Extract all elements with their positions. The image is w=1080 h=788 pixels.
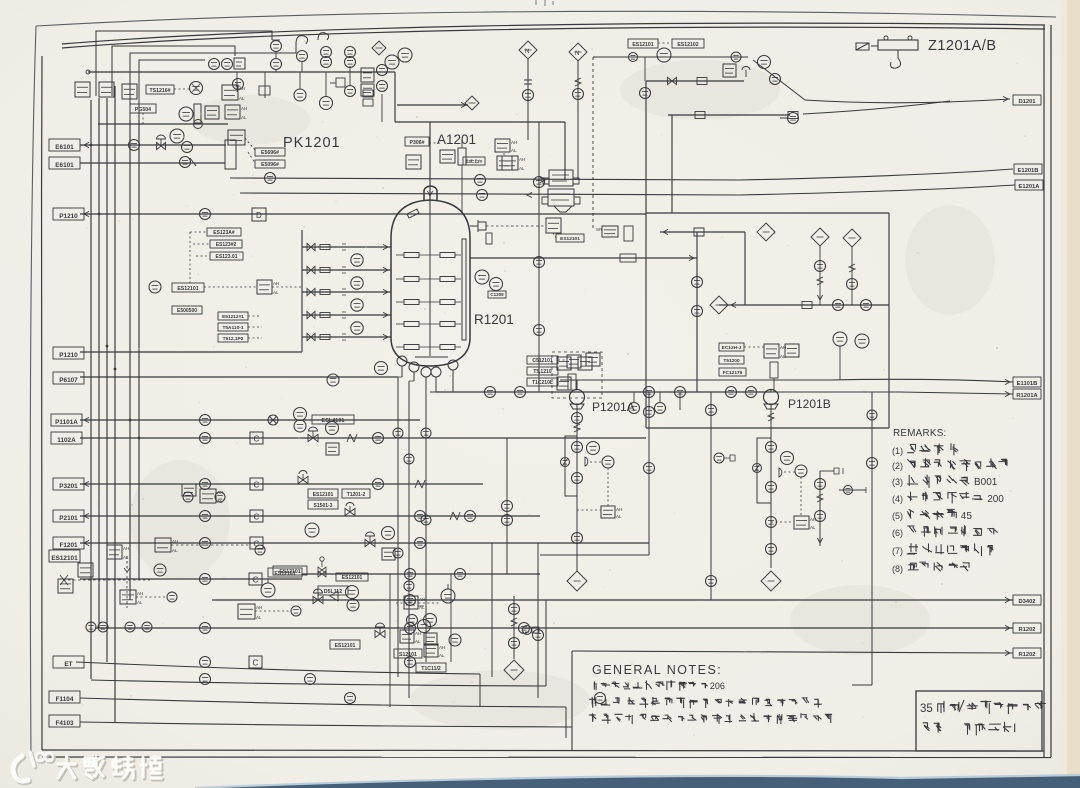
check valve A <box>561 458 570 467</box>
remark line 6 <box>892 525 998 538</box>
Z box <box>326 443 339 455</box>
PG circle low <box>294 89 306 101</box>
reactor coil row 3 <box>396 300 461 305</box>
wire x820 top link <box>820 470 834 472</box>
second TK box <box>361 84 374 96</box>
wire y555 <box>540 554 649 556</box>
svg-text:F4103: F4103 <box>55 720 74 727</box>
wire hoist link <box>871 45 878 47</box>
labels below manifold <box>218 312 248 320</box>
FV circle <box>424 614 437 627</box>
svg-text:AH: AH <box>273 281 279 286</box>
FG circle 2 <box>855 334 869 348</box>
instrument TG circle 4 <box>351 322 363 334</box>
svg-text:PG504: PG504 <box>135 107 151 113</box>
E drain symbol <box>330 82 336 84</box>
FG box A <box>601 506 622 519</box>
label C512101 <box>527 356 558 364</box>
wire vertical x697 <box>696 232 698 392</box>
valve pair x350 <box>345 47 356 58</box>
svg-text:AH: AH <box>123 546 129 551</box>
page top cut-off marks <box>536 0 553 6</box>
reactor coil row 4 <box>396 322 461 327</box>
wire vertical x711 <box>710 392 712 600</box>
wire vertical x451b <box>450 574 452 662</box>
svg-text:ES12101: ES12101 <box>335 643 356 649</box>
svg-text:ES12101: ES12101 <box>342 575 363 581</box>
wire header drop at 395 <box>394 72 396 122</box>
FAC box <box>238 604 262 620</box>
H circle <box>149 281 161 293</box>
wire feed line 2 <box>302 269 391 271</box>
wire drop nozzle2 <box>413 372 415 381</box>
svg-text:A1201: A1201 <box>437 132 476 147</box>
FV circle b2 <box>418 620 431 633</box>
wire x382 to header <box>381 94 383 122</box>
valve on B line 2 <box>475 175 486 186</box>
svg-text:C: C <box>254 513 260 522</box>
wire P1210 line <box>80 213 646 215</box>
label ES12101 top <box>628 39 658 48</box>
wire vertical x546 <box>545 600 547 686</box>
box D on P1210 line <box>252 208 266 221</box>
wire D1201 main <box>805 99 1010 103</box>
svg-text:45: 45 <box>961 511 973 522</box>
label LC <box>418 605 424 607</box>
dash <box>136 596 165 598</box>
notes box left edge <box>571 651 573 750</box>
FV circle bottom <box>346 586 359 599</box>
svg-text:(2): (2) <box>892 461 903 471</box>
dash down <box>607 468 609 506</box>
node P1210 inlet label <box>53 347 84 359</box>
svg-text:T512,1P2: T512,1P2 <box>223 336 244 342</box>
valve on 574 <box>405 569 416 580</box>
svg-text:C: C <box>253 576 259 585</box>
wire vertical x492 <box>491 543 493 677</box>
valve on A line <box>477 190 488 201</box>
node F1201 inlet label <box>53 537 84 549</box>
svg-text:AL: AL <box>273 290 279 295</box>
dashes A1201 <box>429 142 440 144</box>
wire N2 drop <box>577 61 579 140</box>
wire y232 inner <box>660 231 745 233</box>
wire E1201B long line <box>230 169 1013 180</box>
svg-text:E5696#: E5696# <box>261 150 279 156</box>
valve circle <box>182 142 193 153</box>
label ES12102 top <box>672 39 704 48</box>
vent stack 1 <box>271 41 282 52</box>
valve row bl 1 <box>86 622 96 632</box>
diamond TB <box>811 228 829 246</box>
label box top <box>405 137 429 146</box>
V circle <box>758 56 771 69</box>
svg-text:P6107: P6107 <box>59 377 78 384</box>
scan blotches <box>130 60 995 730</box>
check valve B <box>753 464 762 473</box>
wire N drop <box>527 59 529 122</box>
drawing border top double line <box>62 23 1045 44</box>
wire vertical x390 <box>389 574 391 707</box>
FA pair 1 <box>764 344 786 359</box>
node R1202 outlet label <box>1013 648 1041 658</box>
label E5696 1 <box>255 148 285 156</box>
svg-text:AH: AH <box>511 140 517 145</box>
SS circle bottom left <box>375 362 388 375</box>
wire y81 <box>646 80 744 82</box>
right page edge strip <box>1066 0 1080 788</box>
valve A1 <box>572 413 583 424</box>
svg-text:AL: AL <box>172 548 178 553</box>
wire side loop A <box>565 436 577 496</box>
check valve <box>180 157 191 168</box>
svg-text:C: C <box>254 481 260 490</box>
svg-text:P1201B: P1201B <box>788 397 831 411</box>
pipe break <box>450 512 460 520</box>
svg-text:ES12101: ES12101 <box>313 492 334 498</box>
square on header <box>234 58 245 69</box>
svg-text:E51212#1: E51212#1 <box>222 314 244 320</box>
svg-text:AL: AL <box>123 555 129 560</box>
instrument TG circle 2 <box>351 277 363 289</box>
dash rect EA group <box>552 352 602 398</box>
wire big rect bottom <box>646 427 889 429</box>
svg-text:T1C210L: T1C210L <box>532 380 553 386</box>
wire feed line 1 <box>302 246 391 248</box>
dash col <box>248 315 260 317</box>
svg-text:AL: AL <box>810 525 816 530</box>
wire KO drop <box>851 247 853 305</box>
svg-text:REMARKS:: REMARKS: <box>893 428 947 439</box>
D shape B <box>779 468 782 477</box>
svg-text:AL: AL <box>519 166 525 171</box>
label ES12101 mid <box>172 283 204 292</box>
box C <box>249 656 262 668</box>
FV circle <box>326 422 339 435</box>
svg-text:AH: AH <box>241 106 247 111</box>
label E500500 <box>172 306 202 314</box>
svg-text:P1101A: P1101A <box>55 419 78 426</box>
remark line 2 <box>892 458 1007 471</box>
outer page edge left <box>30 26 36 758</box>
node E6101 inlet label <box>49 157 80 169</box>
valves on x539 <box>534 177 545 188</box>
dotted link to PG <box>174 88 190 90</box>
wire F1104 line <box>80 698 566 707</box>
label ES12101 bottom <box>273 566 307 575</box>
wire N drop 2 <box>527 101 529 140</box>
svg-text:R1202: R1202 <box>1018 627 1035 633</box>
svg-text:T1C11/2: T1C11/2 <box>421 666 441 672</box>
label PC box <box>130 104 156 113</box>
dash vertical <box>189 232 191 285</box>
wire E6101 line 1 <box>80 144 226 146</box>
wire bus vertical 2 <box>98 98 100 628</box>
remark line 1 <box>892 443 958 456</box>
small flag <box>330 591 338 601</box>
valve <box>200 415 211 426</box>
svg-text:35: 35 <box>920 703 933 715</box>
wire manifold vertical x302 <box>301 230 303 352</box>
hoist flag <box>856 43 869 50</box>
slim rect <box>624 226 633 241</box>
svg-text:ESL4101: ESL4101 <box>322 418 345 424</box>
valve x820 <box>815 479 826 490</box>
wire y115 <box>668 114 790 116</box>
valve B1 <box>766 442 777 453</box>
svg-text:AH: AH <box>239 86 245 91</box>
node P1101A inlet label <box>51 414 82 426</box>
reactor bottom plate <box>415 356 448 358</box>
box C <box>250 432 263 444</box>
FA box ticks <box>225 105 247 120</box>
wire drop to header <box>773 378 775 392</box>
svg-text:AL: AL <box>241 115 247 120</box>
svg-text:AL: AL <box>415 639 421 644</box>
valves on x507 <box>502 501 513 512</box>
M circle <box>602 456 614 468</box>
valve x711 <box>706 405 717 416</box>
remark line 4 <box>892 492 1004 505</box>
svg-text:ES12101: ES12101 <box>632 42 653 48</box>
title slash <box>959 700 964 712</box>
FA pair 2 <box>785 344 799 357</box>
node E6101 inlet label <box>49 139 80 151</box>
node P6107 inlet label <box>53 372 84 384</box>
label DSL4101 <box>312 415 354 424</box>
wire vertical x646 <box>645 81 647 213</box>
svg-text:C: C <box>253 659 259 668</box>
wire E6101 line 2 <box>80 162 225 164</box>
svg-text:P1210: P1210 <box>59 352 78 359</box>
wire F1201 line <box>80 542 649 544</box>
dash to SI <box>204 286 256 288</box>
wire bus vertical 4 <box>114 86 116 722</box>
mid extra circles row1 <box>183 492 193 502</box>
wire FG drop <box>839 346 841 380</box>
wire discharge header B <box>430 392 1013 394</box>
node 1102A inlet label <box>51 432 82 444</box>
small boxes below <box>488 291 506 298</box>
zb B <box>768 413 774 421</box>
valve <box>200 574 211 585</box>
watermark logo <box>13 752 55 783</box>
wire top header line y72 <box>88 71 395 73</box>
wire drop x237 <box>236 72 238 92</box>
side valve <box>523 626 532 635</box>
Z box LC <box>424 644 445 658</box>
extra circle y679 <box>305 674 316 685</box>
wire big rect top <box>646 212 889 214</box>
check circle b <box>167 592 177 602</box>
remark line 3 <box>892 475 998 488</box>
valve3 <box>405 657 416 668</box>
label D5212 <box>318 586 348 595</box>
big FA assembly 1 <box>543 170 579 186</box>
label 13C12 <box>463 157 485 165</box>
wire y57 top right <box>593 56 748 58</box>
wire side loop B <box>757 438 771 503</box>
dash link <box>171 544 250 546</box>
svg-text:(6): (6) <box>892 528 903 538</box>
wire vertical x872 <box>871 392 873 685</box>
valve box on y81 <box>697 78 707 85</box>
wire ET drop x480 <box>479 674 481 707</box>
label E5696 2 <box>255 160 285 168</box>
arrowheads into left labels <box>84 211 89 216</box>
svg-text:E1201B: E1201B <box>1018 168 1039 174</box>
svg-text:T1201-2: T1201-2 <box>347 492 366 498</box>
FG box B <box>794 516 816 530</box>
FI circle <box>398 48 412 62</box>
svg-text:AH: AH <box>419 597 425 602</box>
svg-text:F1201: F1201 <box>59 542 78 549</box>
valve on B line <box>265 173 276 184</box>
node P1210 inlet label <box>53 208 84 220</box>
wire P1101A line <box>80 419 420 421</box>
PX box <box>546 218 561 233</box>
dash to manifold <box>272 286 302 288</box>
pipe break <box>347 434 357 442</box>
crossed valve <box>268 415 278 425</box>
circle x350 <box>345 86 356 97</box>
node ET inlet label <box>53 656 84 668</box>
wire feed line 5 <box>302 336 391 338</box>
svg-text:E6101: E6101 <box>55 144 74 151</box>
svg-text:AH: AH <box>415 631 421 636</box>
svg-text:AL: AL <box>239 96 245 101</box>
wire vertical x680 <box>679 392 681 410</box>
wire x820 bottom <box>817 538 822 543</box>
remark line 7 <box>892 543 993 556</box>
wire y628 line (to R1202) <box>95 627 1013 629</box>
instr circle DS <box>294 408 307 421</box>
wire bus vertical 6 <box>138 120 140 579</box>
wire y579 line <box>80 578 302 580</box>
N valve inner <box>694 228 704 236</box>
wire P1210 second line <box>80 351 302 353</box>
wire header y122 to reactor top <box>395 121 565 123</box>
FV circle A <box>587 442 600 455</box>
E box <box>205 106 219 119</box>
valve <box>405 595 416 606</box>
svg-text:AL: AL <box>137 600 143 605</box>
EA box 3 <box>557 377 571 390</box>
dash vertical <box>503 153 505 156</box>
wire feed line 4 <box>302 314 391 316</box>
wire vertical x820 lower <box>819 471 821 546</box>
instrument AE box 3 <box>122 84 137 99</box>
bottom center extra label <box>330 640 360 649</box>
drawing border right double line <box>1043 25 1045 757</box>
dash drop bl <box>90 608 92 622</box>
label S12101 <box>394 649 422 658</box>
small diamond mid <box>465 96 479 110</box>
big FA assembly 2 <box>542 189 580 212</box>
diamond PHX A <box>567 571 587 591</box>
svg-text:AL: AL <box>616 514 622 519</box>
OB symbol <box>714 453 724 463</box>
wire vertical x539 upper <box>538 122 540 392</box>
svg-text:AH: AH <box>172 539 178 544</box>
svg-text:P1210: P1210 <box>59 213 78 220</box>
svg-text:N: N <box>575 51 579 57</box>
wire cascade D <box>139 60 205 120</box>
valve on x697 <box>692 277 703 288</box>
wire drop nozzle4 <box>435 377 437 392</box>
SV circle <box>385 55 399 69</box>
svg-text:ES123#2: ES123#2 <box>216 242 237 248</box>
instr circle I <box>305 523 319 537</box>
TA box <box>440 150 455 163</box>
label ES12101 b2 <box>336 573 368 581</box>
N diamond top right <box>519 41 537 59</box>
svg-text:AH: AH <box>519 157 525 162</box>
svg-text:T51200: T51200 <box>723 358 740 364</box>
svg-text:ES123A#: ES123A# <box>213 230 235 236</box>
wire x350 drop <box>349 66 351 86</box>
svg-text:(3): (3) <box>892 477 903 487</box>
wire x872 foot <box>852 684 872 686</box>
instr circle <box>294 420 306 432</box>
svg-text:E5096#: E5096# <box>261 162 279 168</box>
svg-text:R1201A: R1201A <box>1016 393 1038 399</box>
box C <box>250 537 263 549</box>
inline rect on 258 <box>620 254 636 262</box>
wire vertical x507 <box>506 438 508 574</box>
label ES12161 <box>268 568 302 577</box>
FAL box bottom <box>120 590 143 605</box>
FA box bl1 <box>107 545 129 560</box>
mid extra box <box>182 484 196 496</box>
Z box <box>382 548 395 560</box>
svg-text:FC12176: FC12176 <box>723 370 743 376</box>
FV circle B <box>781 452 794 465</box>
wire drop nozzle1 <box>401 366 403 377</box>
wire P2101 line <box>80 515 540 517</box>
valve on E6101 line <box>129 140 140 151</box>
svg-text:C: C <box>254 435 260 444</box>
svg-text:S1501-3: S1501-3 <box>314 503 333 509</box>
SI box <box>257 280 279 295</box>
arrow dash <box>558 359 567 361</box>
L circle <box>490 278 503 291</box>
vent valve bottom <box>318 571 326 577</box>
wire drop to reactor nozzle <box>429 122 431 202</box>
valve circle x237 <box>233 79 244 90</box>
pump P1201B <box>764 390 779 410</box>
valve <box>200 433 211 444</box>
svg-text:206: 206 <box>710 681 725 691</box>
actuator <box>745 70 747 77</box>
svg-text:Z1201A/B: Z1201A/B <box>928 38 997 54</box>
wire drop nozzle5 <box>452 370 454 392</box>
svg-text:ES12101: ES12101 <box>560 236 580 242</box>
hold box <box>802 302 812 309</box>
drawing border bottom double line <box>42 750 1044 751</box>
wire y600 line (to D3402) <box>212 599 1013 601</box>
wire E1201A long line <box>240 185 1015 195</box>
svg-text:(5): (5) <box>892 511 903 521</box>
filter F on E6101 <box>225 140 236 169</box>
wire y258 line <box>470 257 697 259</box>
wire vertical x514 <box>513 596 515 659</box>
dash to M <box>590 461 602 463</box>
arrow into R1202 <box>1005 625 1010 630</box>
svg-text:AH: AH <box>439 645 445 650</box>
notes cjk line 1 <box>594 680 707 690</box>
funnel hook 2 <box>318 33 329 40</box>
